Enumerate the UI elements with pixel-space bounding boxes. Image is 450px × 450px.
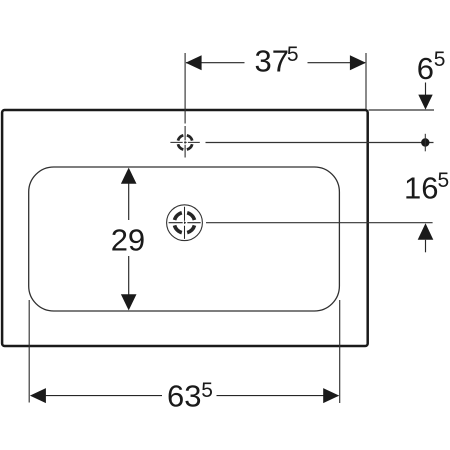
dimension 6.5: down arrow <box>418 83 432 110</box>
inner basin rounded outline <box>29 167 340 311</box>
svg-text:63: 63 <box>167 379 201 414</box>
dimension 37.5: extension line left (faucet axis) <box>184 53 186 124</box>
dimension 6.5: label <box>417 48 446 86</box>
dimension 16.5: label <box>404 169 449 205</box>
faucet centerline leader to right <box>206 142 434 144</box>
svg-text:29: 29 <box>111 222 145 257</box>
dimension 29: vertical dimension line with arrows <box>121 168 137 311</box>
svg-text:5: 5 <box>201 379 213 402</box>
dimension 63.5: extension line left <box>28 300 30 403</box>
svg-text:6: 6 <box>417 51 434 86</box>
dimension 16.5: up arrow below drain axis <box>418 223 434 252</box>
dimension 63.5: label <box>167 379 213 414</box>
dimension 63.5: extension line right <box>339 300 341 403</box>
svg-text:5: 5 <box>287 43 299 66</box>
dimension 6.5: dot on faucet axis with tick <box>421 134 429 152</box>
faucet hole symbol <box>170 126 199 158</box>
ceramic outer outline <box>2 110 368 346</box>
dimension 37.5: label <box>255 43 299 78</box>
dimension 63.5: dimension line with arrows <box>30 388 339 403</box>
svg-text:5: 5 <box>438 169 450 192</box>
drain centerline leader to right <box>206 222 433 224</box>
svg-text:37: 37 <box>255 43 289 78</box>
dimension 6.5: extension line from ceramic top edge <box>369 109 435 111</box>
dimension 29: label <box>111 222 145 257</box>
drain hole symbol <box>167 205 203 241</box>
dimension 37.5: dimension line with arrows <box>186 55 366 70</box>
dimension 37.5: extension line right <box>365 53 367 109</box>
svg-text:16: 16 <box>404 170 438 205</box>
svg-text:5: 5 <box>434 48 446 71</box>
